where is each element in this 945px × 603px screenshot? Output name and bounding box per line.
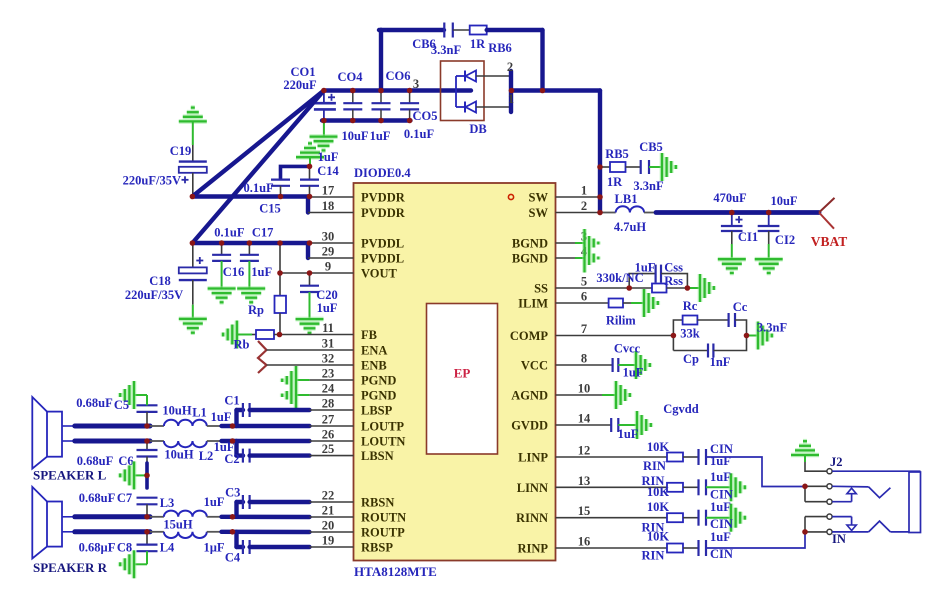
label CO5 [413,109,438,123]
label 15uH [163,518,192,532]
wire top bus to DB [324,88,471,92]
label 1uF [370,129,391,143]
svg-text:ENB: ENB [361,359,387,373]
svg-text:10K: 10K [647,440,670,454]
svg-text:1uF: 1uF [370,129,391,143]
svg-text:C5: C5 [114,398,129,412]
svg-text:33k: 33k [680,327,700,341]
svg-text:PVDDL: PVDDL [361,252,404,266]
label C20 [316,288,338,302]
capacitor CB5 3.3nF [641,160,662,174]
wire PVDDR elbow pin18 [308,197,354,213]
svg-text:BGND: BGND [512,237,548,251]
svg-text:16: 16 [578,535,591,549]
label 1uF for C1 [211,410,232,424]
wire J2 switch lower [832,521,909,532]
label 10K row15 [647,500,670,514]
ground at SS [687,274,713,302]
connector J2 pins [827,469,832,535]
svg-text:1R: 1R [470,37,486,51]
label 0.68uF for C8 [79,541,116,555]
svg-text:1nF: 1nF [710,355,731,369]
label 1uF for C2 [214,440,235,454]
wire ROUTN left [75,514,150,519]
label CIN row15 [710,517,733,531]
pin 1 marker circle [508,194,513,199]
label C5 [114,398,129,412]
svg-text:CO4: CO4 [338,70,364,84]
ground at PGND pins [282,366,296,409]
capacitor C6 0.68uF [137,441,158,463]
svg-text:Css: Css [664,261,683,275]
label HTA8128MTE [354,564,437,579]
svg-text:PVDDR: PVDDR [361,206,406,220]
label C18 [149,274,171,288]
svg-text:22: 22 [322,489,335,503]
label 1uF for C4 [203,541,224,555]
svg-text:470uF: 470uF [713,191,747,205]
label RB6 [488,41,512,55]
wire LOUTP left [75,424,150,429]
svg-text:1uF: 1uF [618,427,639,441]
label 1uF row15 [710,500,731,514]
svg-text:Rb: Rb [234,338,250,352]
capacitor C15 0.1uF [271,166,310,196]
diode pair DB box [441,61,485,121]
wire PVDDL rail pin30 [192,241,353,245]
svg-text:13: 13 [578,474,591,488]
label CO4 [338,70,364,84]
svg-text:2: 2 [581,199,587,213]
diode DB upper [456,71,476,82]
speaker SPEAKER L [32,397,75,469]
label 0.1uF for C16 [214,226,245,240]
wire SS pin5 [556,287,630,289]
svg-text:11: 11 [322,321,334,335]
label 1uF for C20 [317,301,338,315]
svg-text:LBSP: LBSP [361,404,393,418]
svg-text:SPEAKER L: SPEAKER L [33,468,107,483]
label RIN row13 [642,474,665,488]
svg-text:9: 9 [325,260,331,274]
junction dots overlay [144,88,808,535]
svg-text:LINP: LINP [518,451,548,465]
svg-text:5: 5 [581,275,587,289]
EP label [454,366,471,381]
label Rss [664,274,683,288]
capacitor CO4 [343,91,362,121]
svg-text:PGND: PGND [361,389,396,403]
label L2 [199,449,214,463]
svg-text:3.3nF: 3.3nF [431,43,462,57]
ground at CI2 [755,259,783,273]
ground at BGND pins [585,229,599,273]
svg-text:21: 21 [322,504,335,518]
label 10uH for L1 [162,404,191,418]
capacitor CI1 470uF [721,213,743,260]
label 0.1uF [404,127,435,141]
label 220uF/35V for C19 [123,174,181,188]
label C15 [259,202,281,216]
label CO6 [386,69,411,83]
label Css [664,261,683,275]
svg-text:L2: L2 [199,449,214,463]
svg-text:PGND: PGND [361,374,396,388]
label 3.3nF for CB5 [633,179,664,193]
svg-text:C15: C15 [259,202,281,216]
svg-text:RINN: RINN [516,511,548,525]
inductor L1 10uH [150,420,207,426]
label 10K row13 [647,485,670,499]
wire J2 sleeve to body [832,470,920,472]
IC inner EP pad [427,304,498,455]
label RIN row12 [643,459,666,473]
capacitor Cc 3.3nF [729,313,747,336]
label CO1 [291,65,316,79]
svg-text:Rilim: Rilim [606,314,636,328]
ground between bus and C14 [296,121,338,167]
label C19 [170,144,192,158]
ground at C5 [120,381,134,409]
label CIN row12 [710,442,733,456]
svg-text:30: 30 [322,230,335,244]
svg-text:12: 12 [578,444,591,458]
svg-text:HTA8128MTE: HTA8128MTE [354,564,437,579]
svg-text:15uH: 15uH [163,518,192,532]
svg-text:RB6: RB6 [488,41,512,55]
capacitor C17 1uF [240,243,259,289]
label 33k [680,327,700,341]
svg-text:C17: C17 [252,226,274,240]
ground at Cgvdd [637,411,651,439]
svg-text:220uF/35V: 220uF/35V [123,174,181,188]
label 10K row16 [647,529,670,543]
svg-text:J2: J2 [830,455,843,469]
label 1uF for Cgvdd [618,427,639,441]
capacitor Cgvdd 1uF [611,418,637,432]
label 10K row12 [647,440,670,454]
capacitor C4 1uF [237,532,310,554]
capacitor C8 0.68uF [135,532,158,565]
wire ENB pin32 [267,364,354,366]
label Rc [683,299,698,313]
label 1uF for Css [635,261,656,275]
label 10uF for CI2 [770,194,797,208]
wire RINP pin16 with resistor RIN 10K and capacitor CIN 1uF [556,532,806,556]
IC pin number labels [322,184,591,549]
label 0.68uF for C6 [77,454,114,468]
svg-text:C19: C19 [170,144,192,158]
svg-text:10uF: 10uF [770,194,797,208]
label 1R for RB6 [470,37,486,51]
label 1uF for C17 [251,265,272,279]
svg-text:220uF: 220uF [283,78,317,92]
svg-text:0.1uF: 0.1uF [404,127,435,141]
capacitor CO5 [400,91,419,121]
resistor Rp [275,243,287,335]
wire ENA pin31 [267,349,354,351]
svg-text:RBSN: RBSN [361,496,394,510]
svg-text:CO1: CO1 [291,65,316,79]
wire RBSN to IC [310,501,354,503]
svg-text:0.1uF: 0.1uF [214,226,245,240]
capacitor C16 0.1uF [212,243,231,289]
resistor Rb [237,330,354,339]
speaker SPEAKER R [32,487,75,559]
wire LOUTP to IC [222,424,354,428]
svg-text:1uF: 1uF [710,530,731,544]
svg-text:1uF: 1uF [317,301,338,315]
label Rb [234,338,250,352]
wire LBSN to IC [310,455,354,457]
svg-text:6: 6 [581,290,587,304]
ground at Rb [223,321,237,349]
wire DB pin 2 [476,75,511,77]
capacitor CO6 [372,91,391,121]
svg-text:10uH: 10uH [162,404,191,418]
pin number 3 of DB [413,77,419,91]
svg-text:C1: C1 [224,394,239,408]
svg-text:LBSN: LBSN [361,449,394,463]
svg-text:ROUTP: ROUTP [361,526,405,540]
svg-text:SW: SW [529,206,549,220]
label CIN row16 [710,547,733,561]
wire PGND pin23 [296,379,354,381]
label CB6 [412,37,436,51]
wire DB pin 1 [476,106,511,108]
label 1uF row16 [710,530,731,544]
label CIN row13 [710,488,733,502]
ground above J2 [791,441,819,455]
svg-text:IN: IN [832,532,846,546]
capacitor C14 1uF [300,166,319,196]
ground at C6 C7 junction [120,461,134,489]
label Rp [248,303,264,317]
svg-text:Rss: Rss [664,274,683,288]
svg-text:29: 29 [322,245,335,259]
svg-text:L1: L1 [192,406,207,420]
label DIODE0.4 [354,166,411,180]
label 10uH for L2 [164,448,193,462]
capacitor C5 0.68uF [134,395,158,426]
svg-text:0.68uF: 0.68uF [76,396,113,410]
wire VOUT pin9 [280,272,354,274]
svg-text:PVDDR: PVDDR [361,191,406,205]
label C7 [117,491,132,505]
wire J2 tip contact lower [832,517,856,531]
svg-text:VCC: VCC [521,359,548,373]
label 1uF row13 [710,470,731,484]
wire PVDDL elbow pin29 [308,243,354,258]
wire pin 1 SW stub [556,196,601,198]
svg-text:LOUTP: LOUTP [361,420,404,434]
svg-text:DIODE0.4: DIODE0.4 [354,166,411,180]
label Cc [733,300,748,314]
label 220uF/35V for C18 [125,288,183,302]
label C14 [317,164,339,178]
svg-text:C4: C4 [225,551,241,565]
label 1nF [710,355,731,369]
label 10uF [341,129,368,143]
wire LOUTN left [75,439,150,444]
capacitor C1 1uF [237,403,310,426]
wire GVDD pin14 [556,424,612,426]
svg-text:BGND: BGND [512,252,548,266]
svg-text:28: 28 [322,397,335,411]
svg-text:1uF: 1uF [204,495,225,509]
svg-text:DB: DB [469,122,486,136]
svg-text:1uF: 1uF [710,454,731,468]
label C4 [225,551,241,565]
label IN [832,532,846,546]
svg-text:CO5: CO5 [413,109,438,123]
label C1 [224,394,239,408]
label L4 [160,541,175,555]
label CI1 [738,230,758,244]
label Cvcc [614,342,641,356]
svg-text:3: 3 [413,77,419,91]
wire CB6 to RB6 [453,29,470,31]
svg-text:2: 2 [507,60,513,74]
svg-text:27: 27 [322,413,335,427]
capacitor C19 220uF/35V [179,121,207,196]
svg-text:SS: SS [534,282,548,296]
ground above C19 [179,108,207,122]
ground at C17 [237,289,265,303]
svg-text:10K: 10K [647,529,670,543]
svg-text:31: 31 [322,337,335,351]
svg-text:CO6: CO6 [386,69,411,83]
label DB [469,122,486,136]
svg-text:32: 32 [322,352,335,366]
pin number 1 of DB [508,92,514,106]
capacitor C18 220uF/35V [179,243,207,319]
wire LOUTN to IC [222,439,354,443]
svg-text:Rc: Rc [683,299,698,313]
svg-text:CB5: CB5 [639,140,663,154]
wire L3 to C3 node [207,516,222,518]
label C3 [225,486,240,500]
wire VBAT rail [656,210,819,215]
wire RINN pin15 with resistor RIN 10K and capacitor CIN 1uF [556,510,732,526]
capacitor Css 1uF [629,265,687,288]
svg-text:220uF/35V: 220uF/35V [125,288,183,302]
svg-text:CIN: CIN [710,547,733,561]
svg-text:10K: 10K [647,500,670,514]
IC pin name labels [361,191,548,556]
svg-text:25: 25 [322,442,335,456]
svg-text:0.1uF: 0.1uF [243,181,274,195]
svg-text:RIN: RIN [643,459,666,473]
wire DB output bar [509,71,513,112]
ground at COMP [747,322,772,350]
label L1 [192,406,207,420]
svg-text:C3: C3 [225,486,240,500]
diode DB lower [456,102,476,113]
capacitor C2 1uF [237,441,310,463]
wire LINN pin13 with resistor RIN 10K and capacitor CIN 1uF [556,479,732,495]
inductor L2 10uH [150,441,207,447]
label C2 [224,452,239,466]
svg-text:RBSP: RBSP [361,541,393,555]
svg-text:FB: FB [361,328,377,342]
wire LINP to J2 node [805,486,827,501]
svg-text:8: 8 [581,352,587,366]
wire RBSP to IC [310,546,354,548]
label Cgvdd [663,402,698,416]
label CB5 [639,140,663,154]
no-connect zigzag at ENA ENB [258,341,267,373]
svg-text:19: 19 [322,534,335,548]
svg-text:24: 24 [322,382,335,396]
label L3 [160,496,175,510]
ground at LINN [731,473,745,501]
svg-text:RINP: RINP [517,542,548,556]
wire snubber bus right and riser [487,30,543,91]
svg-text:0.68uF: 0.68uF [77,454,114,468]
svg-text:1uF: 1uF [623,366,644,380]
svg-text:CIN: CIN [710,517,733,531]
ground at CB5 [662,153,676,181]
svg-text:C18: C18 [149,274,171,288]
resistor Rss 330k/NC [629,284,687,293]
label J2 [830,455,843,469]
svg-text:PVDDL: PVDDL [361,237,404,251]
label 1R for RB5 [607,175,623,189]
capacitor CB6 3.3nF [444,23,453,38]
wire lower decoupling bus [322,118,411,122]
wire riser to snubber bus [379,30,383,91]
wire AGND pin10 [556,394,617,396]
svg-text:Rp: Rp [248,303,264,317]
svg-text:ILIM: ILIM [518,297,548,311]
svg-text:10uH: 10uH [164,448,193,462]
svg-text:LOUTN: LOUTN [361,435,405,449]
svg-text:1R: 1R [607,175,623,189]
ground below C20 [296,319,324,333]
label 470uF [713,191,747,205]
label C8 [117,541,132,555]
svg-text:15: 15 [578,504,591,518]
wire DB common node [455,76,457,107]
label C17 [252,226,274,240]
wire ROUTP to IC [222,530,354,535]
wire ground to J2 pin1 [805,455,827,471]
ground at CI1 [718,259,746,273]
label C16 [223,265,245,279]
wire PVDDR rail pin17 [192,194,353,199]
svg-text:Cp: Cp [683,352,699,366]
svg-text:1uF: 1uF [318,150,339,164]
svg-text:L4: L4 [160,541,175,555]
svg-text:ENA: ENA [361,344,387,358]
label SPEAKER R [33,560,108,575]
wire BGND pin3 [556,242,585,244]
svg-text:4.7uH: 4.7uH [614,220,647,234]
svg-text:AGND: AGND [511,389,548,403]
svg-text:1µF: 1µF [203,541,224,555]
ground at Cvcc [636,351,650,379]
ground at C8 [120,550,134,578]
svg-text:CI2: CI2 [775,233,795,247]
wire L4 to C4 node [207,531,222,533]
resistor RB5 1R [600,162,641,172]
resistor Rilim [609,299,644,308]
wire ILIM pin6 [556,302,609,304]
svg-text:Cgvdd: Cgvdd [663,402,698,416]
inductor L4 15uH [150,532,207,538]
label 0.1uF for C15 [243,181,274,195]
